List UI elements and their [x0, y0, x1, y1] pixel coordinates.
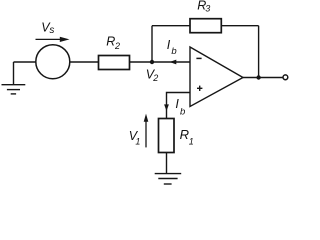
label R1: [180, 127, 194, 147]
wire (V2 node up to feedback): [151, 26, 153, 62]
svg-text:R: R: [106, 34, 115, 48]
resistor R1: [159, 119, 175, 153]
arrow V1 (voltage across R1, pointing up): [144, 114, 149, 148]
label V2: [146, 68, 159, 84]
node V2 (junction dot): [150, 60, 154, 64]
ground (left, below source): [2, 62, 26, 94]
svg-text:b: b: [180, 107, 185, 118]
svg-text:3: 3: [205, 4, 210, 14]
label R2: [106, 34, 120, 51]
svg-text:I: I: [175, 97, 179, 111]
svg-text:I: I: [167, 38, 171, 52]
svg-text:2: 2: [114, 41, 120, 51]
svg-text:1: 1: [135, 136, 140, 146]
op-amp minus sign: [196, 57, 201, 59]
output terminal (open circle): [283, 75, 288, 80]
svg-text:2: 2: [152, 73, 158, 83]
svg-text:R: R: [180, 127, 189, 142]
resistor R3: [190, 19, 221, 33]
wire (R1 to ground): [166, 153, 168, 174]
svg-text:s: s: [49, 25, 54, 36]
ground (below R1): [155, 174, 182, 184]
svg-text:b: b: [171, 46, 176, 57]
label R3: [197, 0, 210, 14]
arrowhead Ib (current down into R1): [164, 104, 169, 111]
wire (feedback down to output node): [258, 26, 260, 78]
op-amp U1: [190, 47, 243, 107]
wire (op-amp output to terminal): [243, 77, 283, 79]
wire (R2 to inverting input, through node V2): [130, 61, 191, 63]
label Vs: [41, 20, 54, 36]
wire (source to R2): [70, 61, 99, 63]
wire (non-inverting input): [167, 93, 191, 119]
arrowhead Ib (current into inverting input, pointing left): [170, 60, 177, 65]
wire (top feedback, right of R3): [221, 25, 258, 27]
label Ib (non-inverting input bias current): [175, 97, 185, 118]
label V1: [129, 129, 141, 147]
voltage source Vs: [36, 45, 70, 79]
arrow Vs (current direction): [36, 37, 70, 42]
svg-text:1: 1: [189, 136, 194, 146]
label Ib (inverting input bias current): [167, 38, 177, 57]
resistor R2: [99, 56, 130, 70]
wire (ground to source Vs): [14, 61, 36, 63]
node (output junction dot): [256, 75, 260, 79]
wire (top feedback, left of R3): [152, 25, 190, 27]
op-amp plus sign: [197, 86, 202, 91]
